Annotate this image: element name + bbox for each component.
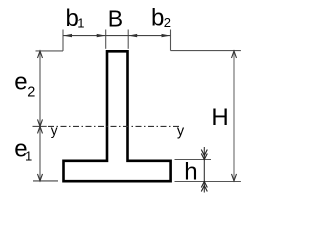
- arrow b2 left: [128, 34, 137, 37]
- dimension line h vertical: [203, 147, 205, 193]
- svg-text:1: 1: [77, 16, 84, 31]
- arrow e2 bottom: [38, 119, 43, 126]
- svg-text:b: b: [151, 5, 164, 32]
- dimension line top (b1 B b2): [63, 35, 171, 37]
- extension line stem left: [105, 30, 107, 49]
- extension line top left horizontal: [36, 50, 64, 52]
- arrow H bottom: [232, 174, 237, 181]
- arrow h top (double chevron down): [201, 150, 207, 160]
- extension line stem right: [127, 30, 129, 49]
- svg-text:H: H: [211, 104, 228, 131]
- arrow e1 bottom: [38, 174, 43, 181]
- svg-text:e: e: [14, 69, 27, 96]
- svg-text:h: h: [184, 158, 197, 185]
- extension line bottom right horizontal: [175, 181, 241, 183]
- centroid axis y-y (dash-dot): [48, 125, 179, 127]
- tick e1 bottom: [33, 180, 58, 182]
- dimension line e2/e1 vertical: [39, 51, 41, 181]
- arrow e1 top: [38, 126, 43, 133]
- svg-text:y: y: [51, 123, 58, 138]
- svg-text:y: y: [177, 124, 185, 140]
- arrow e2 top: [38, 51, 43, 58]
- extension line h top: [175, 159, 212, 161]
- svg-text:2: 2: [27, 84, 35, 100]
- svg-text:1: 1: [25, 148, 32, 163]
- extension line b1 left: [62, 30, 64, 51]
- arrow h bottom (double chevron up): [201, 182, 207, 192]
- arrow b1 left: [63, 34, 72, 37]
- extension line b2 right: [170, 30, 172, 51]
- tick centroid left: [33, 125, 47, 127]
- svg-text:2: 2: [164, 15, 171, 30]
- arrow b1 right: [97, 34, 106, 37]
- arrow b2 right: [162, 34, 171, 37]
- arrow H top: [232, 51, 237, 58]
- extension line top right horizontal: [171, 50, 241, 52]
- T-section outline: [64, 51, 171, 181]
- svg-text:B: B: [108, 6, 123, 32]
- dimension line H vertical: [233, 51, 235, 181]
